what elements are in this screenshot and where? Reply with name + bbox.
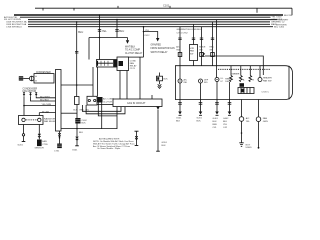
- wire switch leg2: [193, 24, 195, 44]
- right column x241.5: [241, 100, 243, 117]
- gauge assembly big box GB1: [175, 66, 292, 100]
- svg-text:IND: IND: [184, 82, 188, 84]
- svg-text:BLK: BLK: [223, 121, 228, 123]
- connector break on drop x76.7: [75, 51, 78, 53]
- svg-text:SW: SW: [210, 49, 213, 51]
- svg-text:C512: C512: [144, 35, 150, 37]
- connector chevrons C4 leg: [76, 137, 79, 141]
- svg-text:C42: C42: [223, 127, 228, 129]
- svg-text:CONDENSER: CONDENSER: [23, 88, 38, 90]
- wire into J1 from R2: [139, 57, 141, 99]
- svg-text:SENSOR: SENSOR: [35, 147, 45, 149]
- bulb L1: [178, 79, 182, 83]
- svg-text:YEL: YEL: [246, 121, 251, 123]
- node tick S5: [256, 8, 258, 13]
- wire top harness right drop: [291, 8, 293, 15]
- bulb L4: [258, 78, 262, 82]
- connector arrow C1: [23, 92, 25, 96]
- ground drop g229: [229, 82, 231, 112]
- wire SW1 down: [159, 81, 161, 84]
- svg-text:FAN: FAN: [42, 140, 47, 143]
- resistor RZ3: [249, 76, 252, 82]
- wire R2 top right: [129, 56, 144, 58]
- wire branch x127.5: [127, 38, 129, 41]
- coil symbol near dashed box: [203, 53, 205, 57]
- dashed internal line: [218, 68, 270, 70]
- svg-text:CLUTCH RELAY: CLUTCH RELAY: [125, 52, 143, 55]
- node dot bus (117,19.6): [116, 19, 118, 21]
- svg-text:G401: G401: [213, 118, 219, 120]
- resistor RZ2: [239, 76, 242, 82]
- node tick S2: [73, 8, 75, 10]
- svg-text:G101: G101: [72, 149, 78, 151]
- svg-text:DIMMER: DIMMER: [231, 74, 240, 76]
- svg-text:BLK: BLK: [197, 121, 202, 123]
- capacitor column x136.5 top bar: [135, 130, 139, 132]
- svg-text:C101: C101: [163, 4, 170, 8]
- svg-text:G201: G201: [197, 118, 203, 120]
- svg-text:MODE: MODE: [199, 47, 206, 49]
- wire feeds inside GB1: [230, 66, 232, 76]
- node dot bus (143.5,26.7): [143, 26, 145, 28]
- svg-text:G201: G201: [18, 144, 24, 146]
- wire cluster leg 2: [82, 105, 121, 111]
- wire switch leg4: [212, 22, 214, 66]
- connector break on drop x117: [115, 30, 118, 32]
- wire K1 top jog: [39, 112, 55, 114]
- node dot bus (76.7,21.9): [76, 21, 78, 23]
- svg-text:C402: C402: [82, 120, 88, 122]
- svg-text:A/C COMP: A/C COMP: [103, 98, 114, 101]
- svg-text:CTRL: CTRL: [42, 144, 48, 146]
- switch contact box s4: [211, 53, 215, 57]
- connector open arrow below SW1: [158, 84, 162, 88]
- wire SW1 stub: [159, 73, 161, 77]
- wire J1 bottom to ground: [157, 110, 159, 151]
- resistor RZ1: [230, 76, 233, 82]
- wire cluster to J1: [97, 104, 113, 106]
- component small box SW1: [157, 76, 163, 81]
- svg-text:GRN/WHT BLU RED/BLU: GRN/WHT BLU RED/BLU: [177, 29, 203, 31]
- svg-text:BLU/WHT: BLU/WHT: [40, 96, 51, 98]
- wire drop BLU x76.7: [76, 22, 78, 97]
- wire U1 bottom right long: [61, 107, 117, 129]
- svg-text:C708 WHT/BLU: C708 WHT/BLU: [6, 27, 22, 29]
- svg-text:FAN: FAN: [263, 117, 268, 120]
- connector chevrons x136.5: [135, 136, 138, 139]
- svg-text:G551: G551: [162, 142, 168, 144]
- node dot (143.5,31.5): [143, 31, 145, 33]
- svg-text:SW: SW: [190, 53, 193, 55]
- connector break on drop x99.5: [98, 30, 101, 32]
- svg-text:A/C: A/C: [176, 46, 180, 49]
- node dot (77,128.3): [76, 128, 78, 130]
- ground drop g200: [200, 83, 202, 112]
- svg-text:C731: C731: [54, 150, 60, 152]
- connector bubble on K1 left leg: [22, 134, 24, 136]
- svg-text:C123: C123: [130, 68, 136, 70]
- wire cluster leg 3: [86, 105, 125, 114]
- connector break ds4: [211, 38, 214, 40]
- svg-text:SW: SW: [176, 49, 179, 51]
- node tick S3: [117, 6, 119, 8]
- wire into J1 top a: [126, 71, 128, 100]
- svg-text:YEL/GRN: YEL/GRN: [42, 104, 52, 106]
- wire into J1 top a2: [119, 71, 121, 100]
- svg-text:C41: C41: [213, 127, 218, 129]
- switch contact box s1: [178, 53, 182, 57]
- wire bus line 2: [20, 16, 271, 18]
- svg-text:USED: USED: [246, 147, 252, 149]
- wire K1 down left: [23, 125, 25, 142]
- terminal end T1: [239, 143, 243, 147]
- wire C1 to K1: [23, 96, 25, 115]
- inner right edge line: [288, 66, 290, 100]
- svg-text:FAN SW: FAN SW: [263, 80, 272, 83]
- connector break ds1: [178, 38, 181, 40]
- node tick S4: [169, 6, 171, 8]
- motor box B1: [34, 74, 54, 83]
- wire bus line 5: [28, 23, 270, 25]
- bulb L6: [256, 117, 261, 122]
- svg-text:RADIATOR: RADIATOR: [44, 118, 56, 121]
- svg-text:HTR: HTR: [190, 48, 195, 50]
- wire drop x117: [116, 20, 118, 38]
- connector chevrons U1 bottom: [58, 133, 61, 137]
- svg-text:C751 C752: C751 C752: [177, 32, 189, 34]
- svg-text:A/C: A/C: [246, 117, 250, 120]
- wire jog to arrow: [144, 32, 158, 39]
- svg-text:BLK: BLK: [176, 121, 181, 123]
- connector arrow A1 x127.5: [126, 40, 129, 44]
- svg-text:BLK: BLK: [79, 132, 84, 134]
- connector break ds3: [200, 38, 203, 40]
- wire U1 right mid: [61, 112, 77, 114]
- svg-text:NOT: NOT: [246, 144, 251, 146]
- wire cluster leg B: [101, 103, 103, 129]
- svg-text:TO A/C COMP: TO A/C COMP: [125, 49, 140, 52]
- svg-text:BLU: BLU: [119, 29, 124, 33]
- wire bus line 3: [28, 19, 278, 21]
- fan relay box (hatched) R1: [97, 60, 118, 68]
- svg-text:FAN MOTOR: FAN MOTOR: [23, 90, 37, 93]
- svg-text:RED: RED: [213, 124, 218, 126]
- connector arrow J1 bottom: [156, 107, 159, 111]
- capacitor column wire: [136, 131, 138, 145]
- svg-text:B: B: [253, 80, 255, 82]
- wire x97.5 through R1: [97, 67, 99, 97]
- svg-text:IG1 HOT IN RUN: IG1 HOT IN RUN: [4, 19, 21, 21]
- wire bus line 1: [14, 14, 283, 16]
- svg-text:YEL: YEL: [223, 124, 228, 126]
- svg-text:G101: G101: [176, 118, 182, 120]
- svg-text:A/C: A/C: [184, 79, 188, 82]
- ground drop g180: [179, 83, 181, 112]
- svg-text:BLK: BLK: [164, 79, 169, 81]
- svg-text:BLK: BLK: [162, 145, 167, 147]
- wire leg2 lower: [193, 61, 195, 66]
- svg-text:FROM RADIATOR FAN: FROM RADIATOR FAN: [151, 47, 176, 50]
- wire drop x143.5: [143, 27, 145, 57]
- wire x216.5: [216, 20, 218, 78]
- svg-text:SW: SW: [199, 49, 202, 51]
- wire y56 to right: [205, 56, 263, 75]
- ground G4: [156, 150, 160, 152]
- svg-text:BLU C452: BLU C452: [274, 27, 285, 29]
- svg-text:IN CAR: IN CAR: [42, 110, 50, 113]
- svg-text:RED: RED: [80, 110, 85, 112]
- svg-text:WHT/BLK: WHT/BLK: [125, 46, 136, 48]
- svg-text:On Some Models - Wiper: On Some Models - Wiper: [97, 147, 121, 150]
- terminal bar x136.5: [135, 145, 139, 147]
- switch contact box s3: [200, 53, 204, 57]
- svg-text:IND: IND: [204, 82, 208, 84]
- thermal protector (dark blob): [37, 140, 42, 147]
- svg-text:BLK/YEL: BLK/YEL: [284, 15, 294, 17]
- svg-text:DEF: DEF: [225, 81, 230, 83]
- wire bus line 6: [28, 26, 273, 28]
- wire K1 contact up: [38, 113, 40, 116]
- node dot bus (99.5,15): [99, 14, 101, 16]
- ground drop g217: [216, 82, 218, 112]
- connector square (dark) C5: [57, 144, 62, 149]
- wire U1 right y85: [61, 84, 93, 86]
- connector arrow A2: [156, 38, 159, 42]
- a/c clutch relay cluster K2: [75, 96, 103, 105]
- svg-text:G402: G402: [223, 118, 229, 120]
- wire to motor: [23, 77, 29, 79]
- wire branch x89: [88, 38, 90, 60]
- svg-text:GRN/RED: GRN/RED: [151, 45, 162, 47]
- wire C4 down: [76, 124, 78, 146]
- wire bus line 4: [28, 21, 270, 23]
- svg-text:C720 C: C720 C: [262, 92, 270, 94]
- svg-text:FAN RELAY: FAN RELAY: [44, 120, 56, 123]
- wire top harness line: [35, 7, 292, 9]
- connector block (dark) C4: [75, 118, 80, 124]
- control unit tall box U1: [56, 70, 62, 132]
- ground G2 bar: [22, 141, 26, 143]
- svg-text:FAN: FAN: [190, 50, 194, 53]
- connector arrow C2: [29, 92, 31, 96]
- svg-text:BLU: BLU: [78, 30, 83, 34]
- wire x93 riser: [92, 67, 94, 97]
- wire cluster leg A: [98, 103, 117, 116]
- wire jog y37.5: [89, 37, 128, 39]
- wire U1 bottom leg: [59, 131, 61, 144]
- hatched connector CB1: [238, 88, 254, 94]
- bulb L5: [239, 117, 244, 122]
- svg-text:YEL: YEL: [102, 29, 107, 33]
- connector chevrons K1 right leg: [38, 134, 41, 138]
- svg-text:CLUTCH: CLUTCH: [103, 101, 112, 103]
- svg-text:BLU/BLK: BLU/BLK: [40, 100, 50, 102]
- condenser fan motor M1: [29, 76, 34, 81]
- switch sub-box SB1: [190, 45, 198, 61]
- connector break ds2: [192, 38, 195, 40]
- wire K1 down right: [38, 125, 40, 140]
- bulb L3: [215, 78, 219, 82]
- junction bar box J1: [113, 99, 162, 107]
- node dot (24,105.6): [23, 105, 25, 107]
- svg-text:BLK: BLK: [213, 121, 218, 123]
- svg-text:A: A: [243, 79, 245, 82]
- right column x258.5: [258, 100, 260, 117]
- svg-text:CONDENSER: CONDENSER: [36, 72, 51, 74]
- svg-text:GAS IN CIRCUIT: GAS IN CIRCUIT: [127, 102, 146, 105]
- node tick S1: [42, 8, 44, 10]
- svg-text:SWITCH RELAY: SWITCH RELAY: [151, 51, 169, 54]
- dark mark above CB1: [240, 83, 245, 87]
- svg-text:REC: REC: [210, 47, 215, 49]
- wire cluster leg 1: [76, 105, 78, 119]
- svg-text:GRN: GRN: [263, 121, 268, 123]
- relay box R2: [117, 57, 129, 71]
- wire C3 to U1: [36, 96, 55, 98]
- node junction dot (76.7,85): [76, 84, 78, 86]
- svg-text:BLK: BLK: [82, 123, 87, 125]
- ground G3: [75, 145, 79, 147]
- svg-text:BLK: BLK: [73, 110, 77, 112]
- radiator fan relay K1: [19, 116, 44, 125]
- wire switch leg1: [179, 27, 181, 79]
- svg-text:RELAY: RELAY: [130, 65, 137, 68]
- svg-text:LP: LP: [221, 81, 224, 83]
- wire branch to U1: [24, 105, 56, 107]
- svg-text:REAR: REAR: [225, 78, 231, 81]
- svg-text:HEATER: HEATER: [263, 77, 272, 80]
- wire into J1 top c: [151, 95, 153, 99]
- node dot (99.5,37.5): [99, 37, 101, 39]
- bulb L2: [199, 79, 203, 83]
- node dot U1 leg: [59, 137, 61, 139]
- wire drop YEL x99.5: [99, 15, 101, 60]
- wire C2 to U1: [31, 96, 56, 101]
- connector arrow C3: [35, 92, 37, 96]
- condenser fan motor connector (dark block): [19, 76, 23, 80]
- svg-text:FAN: FAN: [130, 62, 135, 65]
- wire switch leg3: [201, 27, 203, 66]
